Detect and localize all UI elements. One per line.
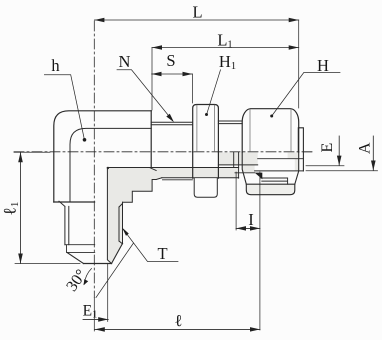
stud section thread right: [119, 202, 123, 244]
svg-text:A: A: [356, 142, 373, 154]
30 deg chamfer extension line: [96, 243, 134, 298]
label E: [319, 143, 336, 153]
dim l1 ext top: [14, 151, 50, 153]
ferrule lines under H nut: [235, 173, 288, 184]
leader T: [124, 230, 178, 262]
dim L1 line: [152, 47, 299, 49]
male thread nipple S zone: [151, 122, 192, 125]
tube outer bottom line: [258, 158, 304, 160]
leader N: [117, 70, 173, 121]
section fill: tube wall right: [288, 153, 299, 159]
dim S ext right: [191, 74, 193, 103]
svg-text:L: L: [192, 2, 202, 21]
svg-text:30°: 30°: [63, 267, 90, 295]
dim A line: [372, 136, 374, 171]
dim I/l ext right: [259, 172, 261, 330]
centerline ext right: [304, 151, 312, 153]
sleeve bottom line: [218, 164, 257, 166]
stud thread runout lines: [65, 245, 95, 253]
nut H upper outline: [242, 109, 299, 152]
svg-text:L1: L1: [217, 30, 232, 50]
stud tip edge: [84, 263, 112, 265]
thread entry chamfer top band: [150, 168, 156, 171]
svg-text:ℓ1: ℓ1: [0, 202, 21, 216]
dim E line: [338, 136, 340, 166]
sleeve step verticals: [234, 153, 239, 179]
svg-text:N: N: [119, 52, 131, 71]
section fill: sleeve zone between nuts: [218, 153, 257, 165]
male thread root line below: [163, 179, 193, 181]
dim L1 ext left: [151, 48, 153, 111]
label l1: [0, 202, 21, 216]
ext line sleeve bottom right: [306, 165, 344, 167]
svg-text:S: S: [166, 51, 175, 70]
stud external thread left root: [68, 206, 70, 244]
svg-text:I: I: [248, 210, 254, 229]
svg-text:T: T: [157, 244, 167, 263]
dim l1 line: [20, 152, 22, 263]
dim E1 ext: [107, 264, 109, 322]
vertical centerline: [93, 21, 95, 298]
bore corner fillet dot: [107, 167, 109, 169]
dim I ext left: [235, 172, 237, 230]
dim S line: [152, 73, 193, 75]
dim E1 line: [83, 318, 108, 320]
body right face: [150, 111, 152, 168]
dim L ext right: [298, 20, 300, 108]
tube bottom edge: [255, 170, 304, 172]
shoulder left: [54, 201, 95, 203]
male thread nipple between nuts: [218, 121, 242, 124]
body outer steps right (section): [123, 178, 162, 203]
stud external thread left crest: [59, 201, 65, 245]
nut H lower faces: [242, 152, 299, 184]
svg-text:h: h: [51, 56, 60, 75]
leader H1: [207, 70, 221, 113]
dim l1 ext bottom: [15, 263, 80, 265]
svg-text:E: E: [319, 143, 336, 153]
stud tip chamfer left: [67, 253, 83, 264]
nut H facet lines: [250, 109, 291, 151]
ext line tube bottom right: [306, 170, 378, 172]
nut H1 facet lines: [197, 105, 215, 152]
svg-text:ℓ: ℓ: [175, 311, 183, 330]
nut H1 upper outline: [193, 105, 219, 153]
elbow inner cosmetic line: [70, 128, 151, 202]
section band bottom line: [162, 177, 239, 179]
label 30deg: [63, 267, 90, 295]
30 deg arc with arrow: [84, 269, 92, 285]
section fill: body wall L-shape: [107, 168, 238, 264]
nut H lower body: [246, 184, 294, 195]
leader h: [44, 75, 84, 139]
ferrule dark bite: [255, 173, 263, 180]
svg-text:H1: H1: [219, 52, 236, 72]
horizontal centerline: [14, 151, 312, 153]
elbow outer profile: [54, 111, 151, 202]
horizontal bore wall line: [107, 167, 238, 169]
dim I line: [236, 227, 260, 229]
label A: [356, 142, 373, 154]
stud bore wall: [107, 168, 111, 264]
svg-text:E1: E1: [83, 303, 98, 321]
stud tip chamfer right 30deg: [112, 244, 123, 264]
dim l line: [95, 328, 260, 330]
dim L line: [94, 19, 298, 21]
centerline ext bottom: [93, 298, 95, 332]
leader H: [272, 73, 340, 116]
nut H1 lower faces: [193, 152, 219, 178]
nut H1 lower notch: [194, 178, 217, 197]
section fill: under H nut left: [242, 165, 254, 173]
tube end protrusion: [298, 128, 303, 171]
